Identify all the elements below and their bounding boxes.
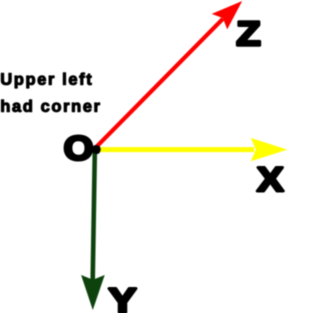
- axis Y wire (dark green vertical line): [93, 152, 95, 280]
- label Z: [238, 22, 260, 46]
- text label: "Upper left" (Liberation Sans Bold outlines): [1, 73, 91, 88]
- text label: "had corner": [1, 100, 99, 112]
- label O: [65, 136, 91, 160]
- axis Y arrowhead: [81, 275, 105, 310]
- label Y: [109, 289, 135, 313]
- axis X arrowhead: [251, 138, 287, 161]
- axis Z arrowhead: [212, 1, 243, 29]
- axis Z wire (red diagonal line, end hidden under the origin dot): [97, 19, 223, 147]
- axis X wire (yellow horizontal line): [99, 147, 254, 152]
- label X: [257, 167, 283, 191]
- origin node O (black dot, drawn over line ends): [92, 145, 101, 154]
